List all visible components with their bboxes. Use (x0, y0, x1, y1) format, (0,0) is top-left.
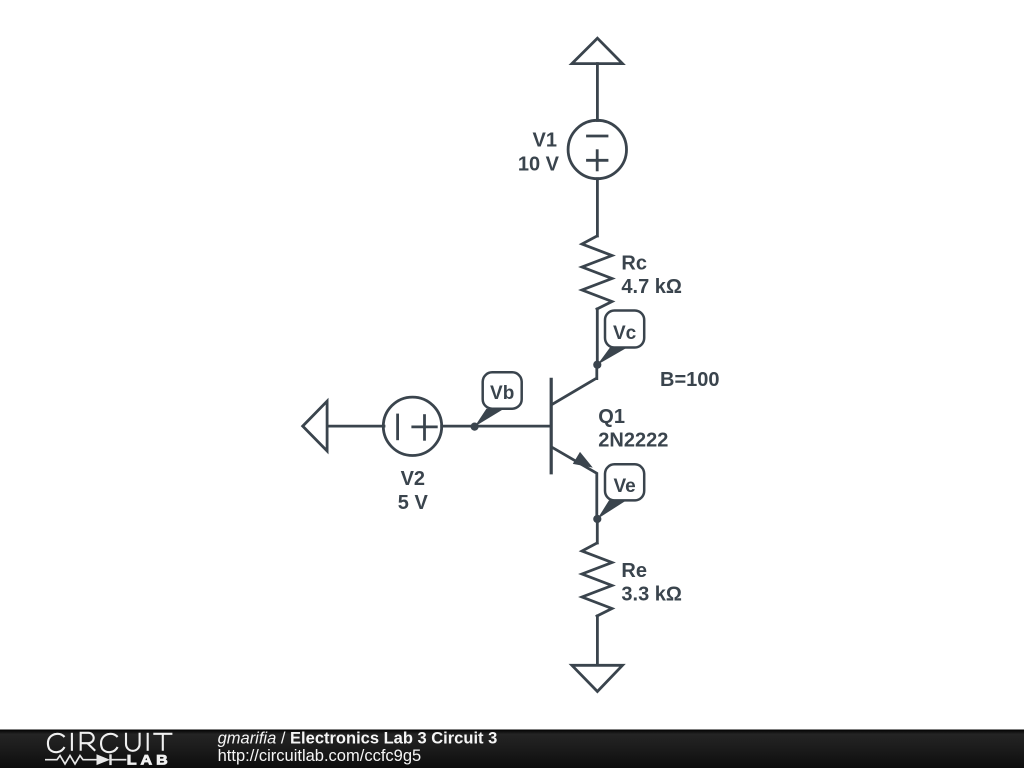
Q1 emitter diagonal (552, 447, 597, 519)
flag Vb pointer (475, 409, 503, 427)
V2 minus symbol (rotated) (396, 415, 399, 439)
svg-text:V1: V1 (533, 130, 557, 152)
svg-text:B=100: B=100 (660, 369, 720, 391)
power flag arrow (top supply) (572, 38, 623, 63)
svg-text:10 V: 10 V (518, 154, 560, 176)
svg-text:Re: Re (621, 560, 647, 582)
svg-text:Rc: Rc (621, 253, 647, 275)
Q1 emitter arrow (573, 452, 593, 468)
CircuitLab logo word CIRCUIT (stroked thin letters) (48, 733, 172, 752)
wire V2 to Q1 base (442, 425, 551, 428)
svg-text:3.3 kΩ: 3.3 kΩ (621, 584, 682, 606)
svg-text:Vc: Vc (613, 323, 637, 344)
svg-text:4.7 kΩ: 4.7 kΩ (621, 276, 682, 298)
transistor Q1 base bar (550, 379, 553, 473)
wire port to V2 (327, 425, 384, 428)
svg-text:LAB: LAB (127, 752, 172, 768)
svg-text:2N2222: 2N2222 (598, 430, 668, 452)
Q1 collector diagonal (552, 365, 597, 405)
node dot Vb (471, 423, 479, 431)
V2 plus symbol (413, 425, 437, 428)
svg-text:Ve: Ve (613, 476, 635, 497)
wire Re to ground (596, 616, 599, 665)
ground symbol (572, 665, 623, 691)
voltage source V2 circle (383, 397, 441, 455)
voltage source V1 circle (568, 120, 626, 178)
logo word LAB (127, 752, 172, 768)
logo resistor+diode glyph (45, 754, 126, 765)
node dot Vc (593, 361, 601, 369)
flag Vc box (605, 311, 644, 348)
port arrow (left) (303, 401, 327, 451)
wire Ve node to Re (596, 519, 599, 543)
svg-text:Vb: Vb (490, 383, 514, 404)
V1 minus symbol (588, 135, 608, 138)
wire Rc to node Vc (596, 309, 599, 365)
node dot Ve (593, 515, 601, 523)
flag Vc pointer (597, 348, 625, 365)
svg-text:gmarifia / Electronics Lab 3 C: gmarifia / Electronics Lab 3 Circuit 3 (218, 730, 498, 748)
resistor Rc zigzag (582, 236, 612, 309)
wire V1 to Rc (596, 179, 599, 236)
svg-text:http://circuitlab.com/ccfc9g5: http://circuitlab.com/ccfc9g5 (218, 747, 422, 765)
flag Ve box (605, 464, 644, 500)
flag Ve pointer (597, 500, 625, 519)
svg-text:V2: V2 (401, 468, 425, 490)
svg-text:5 V: 5 V (398, 492, 429, 514)
svg-text:Q1: Q1 (598, 406, 625, 428)
footer bar (0, 730, 1024, 768)
resistor Re zigzag (582, 543, 612, 616)
V1 plus symbol (588, 159, 608, 162)
wire power arrow to V1 (596, 64, 599, 121)
flag Vb box (483, 372, 522, 408)
